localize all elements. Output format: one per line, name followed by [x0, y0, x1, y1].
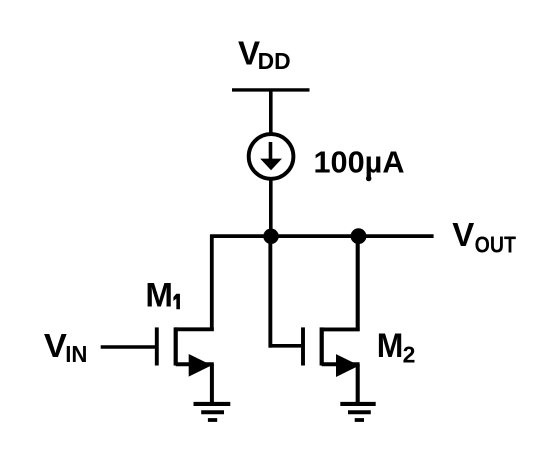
- svg-text:DD: DD: [258, 48, 291, 74]
- svg-text:IN: IN: [65, 341, 87, 367]
- svg-text:V: V: [452, 216, 474, 253]
- svg-text:M: M: [145, 276, 173, 314]
- svg-text:2: 2: [403, 341, 416, 367]
- svg-text:OUT: OUT: [475, 231, 516, 257]
- svg-text:M: M: [377, 327, 404, 365]
- svg-text:V: V: [44, 327, 67, 364]
- svg-text:100µA: 100µA: [314, 144, 405, 179]
